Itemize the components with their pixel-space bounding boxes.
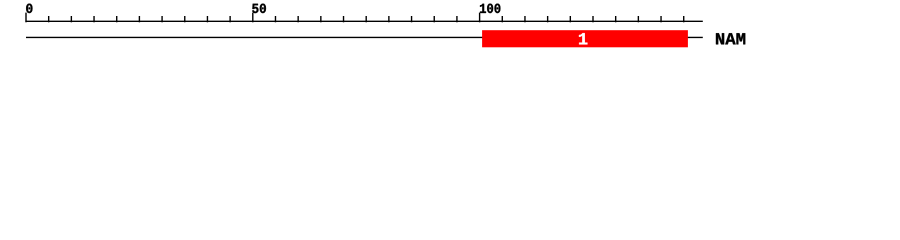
tick label 50	[252, 4, 258, 13]
minor tick 25	[138, 16, 140, 22]
minor tick 115	[547, 16, 549, 22]
minor tick 145	[683, 16, 685, 22]
minor tick 135	[637, 16, 639, 22]
minor tick 55	[274, 16, 276, 22]
minor tick 85	[411, 16, 413, 22]
feature label 1	[579, 33, 587, 44]
minor tick 45	[229, 16, 231, 22]
tick label 0	[26, 4, 32, 13]
minor tick 80	[388, 16, 390, 22]
minor tick 140	[660, 16, 662, 22]
minor tick 20	[116, 16, 118, 22]
minor tick 95	[456, 16, 458, 22]
minor tick 75	[365, 16, 367, 22]
tick label 100	[480, 4, 486, 13]
minor tick 90	[433, 16, 435, 22]
minor tick 130	[615, 16, 617, 22]
minor tick 105	[501, 16, 503, 22]
minor tick 65	[320, 16, 322, 22]
minor tick 30	[161, 16, 163, 22]
minor tick 40	[206, 16, 208, 22]
major tick 50	[252, 13, 254, 23]
feature bar 1 (red)	[482, 30, 688, 47]
sequence name NAM	[716, 33, 724, 44]
minor tick 120	[569, 16, 571, 22]
minor tick 5	[48, 16, 50, 22]
minor tick 10	[70, 16, 72, 22]
minor tick 15	[93, 16, 95, 22]
major tick 100	[479, 13, 481, 23]
sequence track line	[26, 36, 703, 38]
ruler axis line	[25, 20, 702, 22]
minor tick 35	[184, 16, 186, 22]
minor tick 125	[592, 16, 594, 22]
minor tick 60	[297, 16, 299, 22]
major tick 0	[25, 13, 27, 23]
minor tick 70	[343, 16, 345, 22]
minor tick 110	[524, 16, 526, 22]
